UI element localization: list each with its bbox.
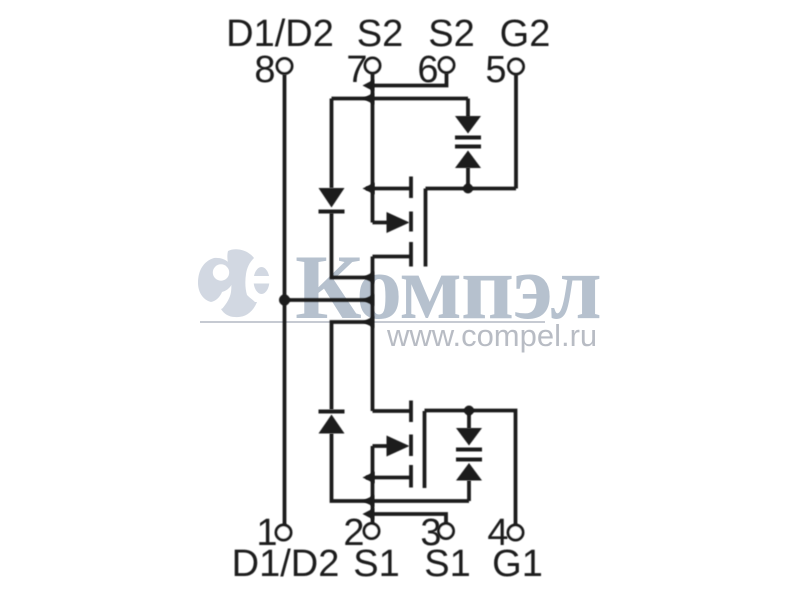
zener Z2 xyxy=(455,116,481,168)
junction dot Z1 gate xyxy=(464,406,474,416)
wire drain node to D1 branch xyxy=(332,322,373,410)
label G2 xyxy=(500,13,551,55)
label D1/D2 top xyxy=(226,13,334,55)
pin number 6 xyxy=(417,49,438,91)
wire zener Z2 top lead xyxy=(466,99,470,118)
watermark underline xyxy=(200,321,545,323)
mosfet Q1 gate bar xyxy=(423,411,427,488)
wire S2 to pin6 xyxy=(373,73,447,86)
label D1/D2 bottom xyxy=(232,543,340,585)
pin number 2 xyxy=(343,512,364,554)
mosfet Q1 channel dashes xyxy=(409,401,413,488)
pin 1 terminal xyxy=(276,525,291,540)
label S1 pin3 xyxy=(424,543,470,585)
wire S1 to pin3 xyxy=(373,514,447,524)
watermark logo xyxy=(198,249,272,317)
junction arrow S1 node xyxy=(363,495,375,507)
junction arrow drain node lower xyxy=(363,316,375,328)
wire Q2 body tap xyxy=(373,221,391,225)
svg-text:G2: G2 xyxy=(500,13,551,55)
svg-text:www.compel.ru: www.compel.ru xyxy=(386,318,597,353)
label S2 pin7 xyxy=(357,13,403,55)
diode D2 xyxy=(319,188,345,214)
svg-text:G1: G1 xyxy=(492,543,543,585)
pin number 4 xyxy=(487,512,508,554)
junction arrow drain node mid xyxy=(363,294,375,306)
pin 7 terminal xyxy=(365,58,380,73)
pin number 3 xyxy=(420,512,441,554)
svg-text:6: 6 xyxy=(417,49,438,91)
pin 5 terminal xyxy=(509,59,524,74)
svg-text:7: 7 xyxy=(346,49,367,91)
watermark text xyxy=(295,236,601,338)
pin 8 terminal xyxy=(277,59,292,74)
mosfet Q1 body arrow xyxy=(387,436,410,457)
junction arrow S2 node xyxy=(363,93,375,105)
junction arrow S2 pin6 xyxy=(363,80,375,92)
wire drain rail pin8 to pin1 xyxy=(283,75,287,526)
wire S2 node horizontal xyxy=(332,97,469,101)
junction arrow Q1 source xyxy=(363,472,375,484)
wire rail to drain node xyxy=(285,298,373,302)
pin number 8 xyxy=(254,49,275,91)
wire Q1 source tap xyxy=(366,476,411,480)
pin 6 terminal xyxy=(439,58,454,73)
wire Q1 jog and S1 riser pin2 xyxy=(371,446,375,524)
junction arrow drain node upper xyxy=(363,272,375,284)
wire D1 anode to S1 wire xyxy=(332,434,470,502)
wire diode D2 branch xyxy=(330,99,334,189)
wire Q2 gate lead to G2 xyxy=(426,187,517,191)
wire Q1 drain tap xyxy=(373,409,412,413)
pin 4 terminal xyxy=(508,525,523,540)
wire G2 riser pin5 xyxy=(514,75,518,189)
pin number 1 xyxy=(256,512,277,554)
pin 3 terminal xyxy=(439,524,454,539)
wire Q1 gate lead to G1 xyxy=(425,411,516,526)
wire zener Z1 top lead xyxy=(467,411,471,429)
wire Q2 drain tap xyxy=(373,255,412,259)
junction dot Z2 gate xyxy=(463,184,473,194)
pin number 5 xyxy=(485,49,506,91)
label S1 pin2 xyxy=(353,543,399,585)
junction arrow S1 pin3 xyxy=(363,508,375,520)
wire zener Z2 bottom lead xyxy=(466,168,470,189)
wire D2 cathode to drain node xyxy=(332,213,373,278)
label S2 pin6 xyxy=(428,13,474,55)
diode D1 xyxy=(319,410,345,434)
svg-text:S1: S1 xyxy=(424,543,470,585)
svg-text:D1/D2: D1/D2 xyxy=(232,543,340,585)
pin 2 terminal xyxy=(364,524,379,539)
svg-text:D1/D2: D1/D2 xyxy=(226,13,334,55)
wire zener Z1 bottom lead xyxy=(467,481,471,502)
label G1 xyxy=(492,543,543,585)
mosfet Q2 body arrow xyxy=(387,212,410,233)
svg-text:8: 8 xyxy=(254,49,275,91)
mosfet Q2 channel dashes xyxy=(409,177,413,267)
svg-text:S1: S1 xyxy=(353,543,399,585)
wire S2 riser pin7 xyxy=(371,74,375,223)
wire Q2 source tap xyxy=(366,187,411,191)
svg-text:5: 5 xyxy=(485,49,506,91)
junction arrow Q2 source xyxy=(363,183,375,195)
mosfet Q2 gate bar xyxy=(424,189,428,267)
zener Z1 xyxy=(456,428,482,481)
wire common drain vertical xyxy=(371,257,375,412)
pin number 7 xyxy=(346,49,367,91)
wire Q1 body tap xyxy=(373,444,391,448)
junction dot drain rail xyxy=(279,295,290,306)
